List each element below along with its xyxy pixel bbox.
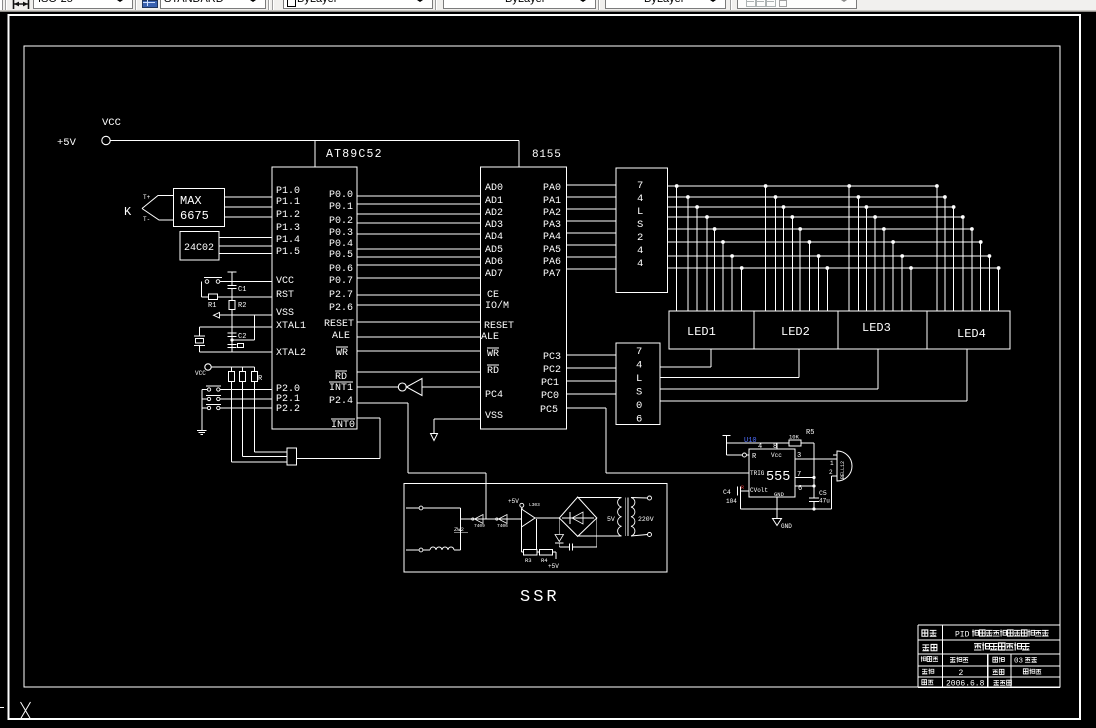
svg-text:0: 0	[636, 400, 642, 412]
svg-text:GND: GND	[774, 491, 785, 498]
svg-text:RST: RST	[276, 290, 294, 301]
svg-text:S: S	[636, 387, 642, 399]
svg-text:P2.7: P2.7	[329, 290, 353, 301]
svg-text:INT1: INT1	[329, 383, 353, 394]
svg-text:P1.0: P1.0	[276, 186, 300, 197]
svg-text:RESET: RESET	[324, 319, 354, 330]
svg-text:555: 555	[766, 470, 790, 485]
svg-text:AD6: AD6	[485, 257, 503, 268]
svg-text:PA5: PA5	[543, 245, 561, 256]
svg-text:U10: U10	[744, 437, 757, 445]
svg-text:CE: CE	[487, 290, 499, 301]
svg-text:P0.4: P0.4	[329, 239, 353, 250]
svg-text:7: 7	[637, 180, 643, 192]
svg-text:PA7: PA7	[543, 269, 561, 280]
svg-text:R: R	[741, 485, 744, 491]
svg-text:PA0: PA0	[543, 183, 561, 194]
svg-text:P0.1: P0.1	[329, 202, 353, 213]
svg-text:104: 104	[726, 498, 737, 505]
svg-text:LED1: LED1	[687, 325, 716, 339]
svg-text:6: 6	[798, 485, 802, 493]
svg-text:PC5: PC5	[540, 405, 558, 416]
svg-text:P0.6: P0.6	[329, 264, 353, 275]
svg-text:7409: 7409	[474, 523, 485, 529]
svg-text:GND: GND	[781, 523, 792, 530]
svg-text:P0.7: P0.7	[329, 276, 353, 287]
svg-text:PC4: PC4	[485, 390, 503, 401]
svg-text:AD2: AD2	[485, 208, 503, 219]
svg-text:VSS: VSS	[485, 411, 503, 422]
svg-text:K: K	[124, 205, 132, 219]
svg-text:C4: C4	[723, 489, 731, 496]
svg-text:IO/M: IO/M	[485, 300, 509, 312]
svg-text:T+: T+	[143, 194, 151, 201]
svg-text:LED3: LED3	[862, 321, 891, 335]
svg-text:C5: C5	[819, 490, 827, 497]
svg-text:VCC: VCC	[102, 117, 121, 129]
svg-text:6675: 6675	[180, 209, 209, 223]
svg-text:4: 4	[636, 360, 642, 372]
svg-text:BELL12: BELL12	[840, 461, 846, 479]
svg-text:4: 4	[637, 258, 643, 270]
svg-text:MAX: MAX	[180, 194, 202, 208]
svg-text:5V: 5V	[607, 516, 615, 523]
svg-text:PA6: PA6	[543, 257, 561, 268]
svg-text:L: L	[636, 373, 642, 385]
svg-text:PID: PID	[955, 631, 970, 640]
svg-text:PA3: PA3	[543, 220, 561, 231]
svg-text:VSS: VSS	[276, 308, 294, 319]
svg-text:XTAL1: XTAL1	[276, 321, 306, 332]
svg-text:C1: C1	[238, 286, 246, 294]
svg-text:PA4: PA4	[543, 232, 561, 243]
svg-text:PC1: PC1	[541, 378, 559, 389]
svg-text:P0.2: P0.2	[329, 216, 353, 227]
svg-text:PC0: PC0	[541, 391, 559, 402]
svg-text:AT89C52: AT89C52	[326, 148, 383, 161]
svg-text:7406: 7406	[497, 523, 508, 529]
svg-text:2: 2	[637, 232, 643, 244]
svg-text:4: 4	[758, 443, 762, 451]
svg-text:PC2: PC2	[543, 365, 561, 376]
svg-text:P2.4: P2.4	[329, 396, 353, 407]
svg-text:S: S	[637, 219, 643, 231]
svg-text:3: 3	[797, 452, 801, 460]
svg-text:PC3: PC3	[543, 352, 561, 363]
svg-text:PA1: PA1	[543, 196, 561, 207]
svg-text:+5V: +5V	[548, 563, 559, 570]
svg-text:P1.4: P1.4	[276, 235, 300, 246]
svg-text:AD7: AD7	[485, 269, 503, 280]
svg-text:Vcc: Vcc	[771, 452, 782, 459]
svg-text:1: 1	[830, 460, 834, 467]
svg-text:+5V: +5V	[508, 498, 519, 505]
svg-text:8: 8	[773, 443, 777, 451]
svg-text:ALE: ALE	[332, 331, 350, 342]
svg-text:AD1: AD1	[485, 196, 503, 207]
svg-text:INT0: INT0	[331, 420, 355, 431]
svg-text:4: 4	[637, 193, 643, 205]
svg-text:AD5: AD5	[485, 245, 503, 256]
svg-text:LED4: LED4	[957, 327, 986, 341]
svg-text:SSR: SSR	[520, 588, 560, 607]
svg-text:24C02: 24C02	[184, 243, 214, 254]
svg-text:R1: R1	[208, 302, 216, 310]
svg-text:LED2: LED2	[781, 325, 810, 339]
svg-text:AD4: AD4	[485, 232, 503, 243]
svg-text:P2.2: P2.2	[276, 404, 300, 415]
svg-text:7: 7	[797, 471, 801, 479]
svg-text:RESET: RESET	[484, 321, 514, 332]
svg-text:8155: 8155	[532, 149, 562, 161]
svg-text:10K: 10K	[789, 434, 800, 441]
svg-text:47u: 47u	[819, 498, 830, 505]
svg-text:4: 4	[637, 245, 643, 257]
svg-text:2: 2	[959, 669, 964, 678]
svg-text:7: 7	[636, 346, 642, 358]
svg-text:P0.0: P0.0	[329, 190, 353, 201]
svg-text:P0.5: P0.5	[329, 250, 353, 261]
svg-text:220V: 220V	[638, 516, 654, 523]
svg-text:2: 2	[829, 469, 833, 476]
svg-text:AD3: AD3	[485, 220, 503, 231]
svg-text:ALE: ALE	[481, 332, 499, 343]
svg-text:R5: R5	[806, 429, 814, 437]
svg-text:XTAL2: XTAL2	[276, 348, 306, 359]
svg-text:P1.2: P1.2	[276, 210, 300, 221]
svg-text:WR: WR	[336, 348, 348, 359]
svg-text:P1.3: P1.3	[276, 223, 300, 234]
svg-text:2006.6.8: 2006.6.8	[946, 680, 985, 689]
svg-text:CVolt: CVolt	[750, 487, 768, 494]
svg-text:P2.6: P2.6	[329, 303, 353, 314]
svg-text:L: L	[637, 206, 643, 218]
svg-text:P0.3: P0.3	[329, 228, 353, 239]
svg-text:03: 03	[1014, 658, 1024, 666]
svg-text:P1.1: P1.1	[276, 197, 300, 208]
svg-text:RD: RD	[487, 366, 499, 377]
svg-text:P1.5: P1.5	[276, 247, 300, 258]
svg-text:VCC: VCC	[195, 370, 206, 377]
svg-text:WR: WR	[487, 349, 499, 360]
svg-text:PA2: PA2	[543, 208, 561, 219]
svg-text:R2: R2	[238, 302, 246, 310]
svg-text:VCC: VCC	[276, 276, 294, 287]
svg-text:+5V: +5V	[57, 137, 77, 149]
svg-text:T-: T-	[143, 216, 150, 223]
svg-text:TRIG: TRIG	[750, 470, 765, 477]
svg-text:R3: R3	[525, 557, 532, 564]
svg-text:AD0: AD0	[485, 183, 503, 194]
svg-text:6: 6	[636, 414, 642, 426]
svg-text:L303: L303	[529, 502, 540, 508]
